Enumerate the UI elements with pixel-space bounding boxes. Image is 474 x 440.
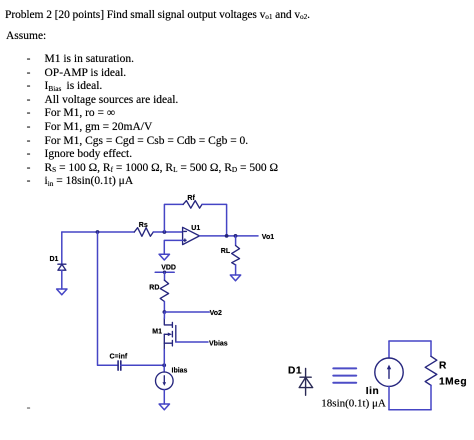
ground under RL: [230, 275, 240, 281]
wire D1 anode lead: [61, 232, 63, 264]
wire RL top lead: [235, 236, 237, 246]
svg-text:RD: RD: [149, 285, 159, 292]
wire RD to drain node: [163, 302, 165, 313]
node source junction: [162, 363, 166, 367]
wire equivalent loop top: [389, 340, 431, 342]
equivalence sign: [333, 368, 356, 382]
wire Rf right vertical to output: [202, 204, 227, 236]
wire drain node to Vo2: [164, 311, 209, 313]
transistor M1: [164, 318, 176, 350]
ground under D1: [57, 289, 67, 295]
wire op-amp output to Vo1: [200, 235, 259, 237]
bullet list: [27, 54, 31, 66]
stray dash bottom-left: [27, 403, 31, 415]
diode D1: [58, 264, 66, 270]
wire equivalent loop left upper: [388, 341, 390, 358]
svg-text:Iin: Iin: [366, 386, 379, 397]
wire D1 to ground: [61, 270, 63, 289]
node output-RL junction: [234, 234, 238, 238]
current source Iin: [375, 358, 403, 386]
assume heading: [6, 31, 46, 43]
svg-text:M1: M1: [152, 328, 162, 335]
ground under op-amp: [159, 254, 169, 260]
wire equivalent loop left lower: [388, 386, 390, 409]
node output-Rf junction: [225, 234, 229, 238]
resistor RD: [160, 280, 168, 301]
wire equivalent loop right lower: [430, 385, 432, 410]
wire Ibias to ground: [163, 390, 165, 404]
svg-text:D1: D1: [288, 365, 302, 376]
svg-text:Vo1: Vo1: [262, 234, 274, 241]
transistor M1 bulk arrow: [168, 333, 172, 337]
wire Rf left vertical: [164, 204, 183, 232]
svg-text:Vo2: Vo2: [210, 310, 222, 317]
svg-text:RL: RL: [221, 248, 231, 255]
wire Rs to op-amp inverting input: [153, 231, 182, 233]
op-amp U1: [183, 227, 200, 244]
wire VDD to RD: [164, 272, 166, 280]
power flag VDD: [155, 271, 174, 273]
svg-text:U1: U1: [191, 225, 200, 232]
svg-text:Ibias: Ibias: [172, 367, 188, 374]
svg-text:1Meg: 1Meg: [439, 377, 467, 388]
current source Ibias: [156, 372, 174, 390]
svg-text:Rs: Rs: [139, 222, 148, 229]
wire equivalent loop bottom: [389, 409, 431, 411]
wire input node horizontal: [62, 231, 135, 233]
svg-text:18sin(0.1t) μA: 18sin(0.1t) μA: [321, 398, 386, 410]
wire gate to Vbias: [176, 341, 208, 343]
resistor Rf: [183, 201, 202, 209]
node junction at Rf tap: [163, 230, 167, 234]
svg-text:C=inf: C=inf: [110, 354, 128, 361]
wire RL bottom lead: [235, 265, 237, 275]
resistor Rs: [134, 228, 153, 237]
resistor RL: [232, 246, 240, 265]
wire capacitor to source node: [121, 364, 164, 366]
resistor R: [425, 356, 437, 385]
svg-text:Rf: Rf: [187, 195, 195, 202]
wire equivalent loop right upper: [430, 341, 432, 356]
node Vo2 junction: [163, 310, 167, 314]
node junction input: [96, 230, 100, 234]
svg-text:D1: D1: [50, 256, 59, 263]
wire source lead: [163, 350, 165, 366]
wire source node to Ibias: [163, 365, 165, 372]
svg-text:Vbias: Vbias: [209, 340, 228, 347]
wire input node down to coupling capacitor: [98, 232, 119, 365]
title text: [5, 10, 310, 22]
diode D1 equivalent-circuit symbol: [299, 368, 313, 395]
svg-text:R: R: [439, 361, 447, 372]
ground under Ibias: [159, 404, 169, 410]
wire non-inverting input to ground: [164, 240, 182, 254]
svg-text:VDD: VDD: [161, 265, 176, 272]
capacitor C=inf: [118, 361, 121, 370]
wire drain lead: [163, 312, 165, 319]
